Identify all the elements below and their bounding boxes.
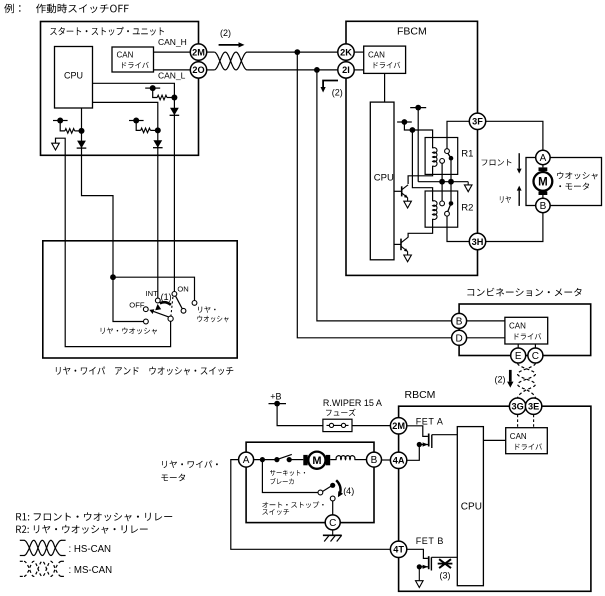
- diode D1: [77, 141, 86, 149]
- label circuit breaker line1: [270, 470, 305, 476]
- washer motor box: [526, 158, 602, 206]
- legend HS-CAN braid: [20, 539, 25, 541]
- input arrow symbol: [52, 143, 60, 150]
- wire S3 to resistor: [153, 88, 158, 97]
- relay R1 box: [425, 138, 458, 175]
- arrow front down: [518, 153, 520, 168]
- svg-text:3H: 3H: [472, 237, 484, 247]
- switch S3 bar: [145, 87, 160, 89]
- switch S3 contact dot: [150, 85, 156, 91]
- label rear washer right line1: [198, 306, 216, 312]
- pin wiper C: [325, 515, 340, 530]
- ground FET B: [418, 567, 420, 581]
- svg-text:ON: ON: [177, 285, 188, 294]
- CPU RBCM box: [457, 427, 483, 586]
- wire R2 contact to 3H: [447, 216, 469, 241]
- wire input arrow to switch common: [56, 138, 171, 346]
- rotation arrow (1): [160, 302, 171, 305]
- transistor Q2 base wire: [394, 243, 401, 245]
- svg-text:CPU: CPU: [374, 172, 394, 183]
- legend R1: [16, 512, 172, 521]
- svg-text:FET B: FET B: [416, 536, 444, 546]
- chassis ground C: [332, 530, 334, 535]
- FET A gate wire to CPU: [432, 434, 458, 436]
- pin 2K: [338, 44, 354, 60]
- pin 2M rbcm: [390, 418, 406, 434]
- pin C meter: [528, 348, 543, 363]
- fuse F1: [323, 419, 352, 431]
- svg-text:(1): (1): [161, 292, 172, 302]
- svg-text:2K: 2K: [340, 47, 352, 57]
- svg-text:OFF: OFF: [129, 300, 145, 309]
- wire 2O to braid: [207, 69, 215, 71]
- ground Q2: [407, 252, 409, 256]
- FET B drain wire: [407, 549, 428, 558]
- FBCM box: [346, 21, 478, 275]
- FET B source dot: [417, 564, 422, 569]
- wire T2 junction to R2 coil: [412, 130, 432, 201]
- power tap T1 bar: [410, 107, 426, 109]
- combination meter box: [459, 304, 591, 356]
- contact OFF circle: [143, 307, 148, 312]
- wire CAN_L junction down to B: [317, 70, 452, 321]
- wire T1 to relay common: [417, 108, 419, 182]
- label fuse jp: [326, 409, 356, 416]
- svg-text:(4): (4): [343, 486, 354, 496]
- wire B to CAN driver meter: [466, 320, 505, 322]
- power tap T2 bar: [397, 121, 412, 123]
- wire washer junction to rear washer R contact: [113, 277, 195, 300]
- junction A dot: [79, 128, 85, 134]
- relay R2 NC contact: [440, 201, 445, 206]
- wire D to CAN driver meter: [466, 337, 505, 339]
- svg-text:: MS-CAN: : MS-CAN: [69, 565, 113, 576]
- label circuit breaker line2: [270, 478, 293, 484]
- rear wiper and washer switch box: [43, 241, 237, 358]
- washer motor brush top: [539, 167, 548, 171]
- svg-text:B: B: [540, 201, 547, 212]
- legend R2: [16, 525, 148, 534]
- svg-text:RBCM: RBCM: [405, 389, 436, 401]
- wire S2 to resistor: [136, 121, 141, 131]
- wire breaker to motor: [289, 459, 303, 461]
- relay R1 fixed contact: [445, 149, 450, 154]
- svg-text:D: D: [455, 333, 462, 344]
- svg-text:CAN: CAN: [510, 432, 527, 441]
- auto-stop fixed contact: [318, 490, 323, 495]
- wire R1 NC to R2 contact: [441, 163, 443, 201]
- CAN driver FBCM box: [364, 46, 406, 73]
- svg-text:CAN: CAN: [117, 51, 134, 60]
- RBCM box: [399, 406, 591, 591]
- svg-text:(2): (2): [332, 87, 343, 97]
- svg-text:B: B: [456, 317, 463, 328]
- pin 2I: [338, 62, 354, 78]
- junction C dot: [171, 95, 177, 101]
- junction CAN_H dot: [294, 49, 300, 55]
- switch S2 contact dot: [133, 118, 139, 124]
- switch box title: [56, 367, 233, 376]
- wire R1 common to R2 common: [450, 160, 452, 201]
- washer motor brush bottom: [539, 191, 548, 195]
- rear wiper motor M2: [308, 452, 325, 469]
- start-stop unit box: [41, 22, 199, 156]
- CPU FBCM box: [370, 102, 394, 260]
- auto-stop moving dot: [330, 483, 335, 488]
- junction CAN_L dot: [314, 67, 320, 73]
- pin D meter: [452, 330, 467, 345]
- relay R2 common dot: [449, 201, 454, 206]
- relay R2 moving lever: [448, 203, 451, 212]
- wire 2M to braid: [207, 51, 215, 53]
- wire CAN_H junction down to D: [297, 52, 452, 338]
- combination meter title: [468, 288, 582, 297]
- transistor Q2: [400, 239, 402, 251]
- switch pivot circle: [168, 316, 173, 321]
- svg-text:CAN: CAN: [509, 322, 526, 331]
- FET B channel bar: [428, 556, 430, 569]
- switch S1 contact dot: [57, 118, 63, 124]
- FET B source wire: [419, 566, 428, 568]
- FET A drain wire: [407, 426, 428, 437]
- ground arrow relay line: [467, 182, 469, 185]
- junction B dot: [155, 127, 161, 133]
- diode D2: [153, 140, 162, 148]
- wire resistor to junction A: [75, 130, 82, 132]
- svg-text:A: A: [243, 455, 250, 466]
- label front jp: [482, 159, 512, 166]
- svg-text:2M: 2M: [392, 421, 405, 431]
- wire CPU bottom to node A junction: [81, 108, 83, 129]
- wire R1 coil to Q1 collector: [408, 166, 433, 184]
- pin washer B: [536, 198, 550, 212]
- svg-text:4A: 4A: [393, 456, 405, 466]
- junction T2 dot: [410, 127, 416, 133]
- HS-CAN twisted pair braid: [214, 52, 247, 70]
- wire CAN driver to C: [534, 344, 536, 348]
- svg-text:C: C: [532, 351, 539, 362]
- pin 4A: [390, 452, 406, 468]
- resistor R-s3: [157, 95, 167, 100]
- rear motor brush right: [326, 455, 330, 465]
- pin 3F: [469, 113, 485, 129]
- wire 2K to CAN driver: [354, 51, 364, 53]
- switch S2 bar: [129, 120, 144, 122]
- svg-text:+B: +B: [270, 392, 281, 402]
- wire junction B to INT contact: [157, 130, 159, 298]
- svg-text:FBCM: FBCM: [397, 25, 427, 37]
- svg-text:A: A: [540, 153, 547, 164]
- circuit breaker CB: [274, 457, 279, 462]
- svg-text:(2): (2): [495, 374, 506, 384]
- svg-text:INT: INT: [146, 289, 159, 298]
- wire breaker junction to auto-stop: [262, 460, 318, 493]
- relay R2 coil: [433, 201, 437, 220]
- svg-text:R1: R1: [461, 149, 473, 160]
- junction breaker dot: [260, 457, 265, 462]
- rotation arrow (4): [336, 480, 340, 493]
- FET A channel bar: [428, 434, 430, 447]
- svg-text:CPU: CPU: [64, 71, 83, 81]
- wire junction C to ON contact: [173, 98, 175, 292]
- rear wiper motor box: [246, 442, 374, 522]
- wire junction A to washer line: [82, 131, 114, 277]
- junction relay line dot1: [439, 179, 445, 185]
- relay R1 NC contact: [440, 159, 445, 164]
- svg-text:: HS-CAN: : HS-CAN: [69, 544, 112, 555]
- relay R2 box: [425, 191, 458, 227]
- CAN driver RBCM label jp: [516, 443, 543, 450]
- contact rear-washer-R circle: [192, 301, 197, 306]
- wire CAN driver to E: [517, 344, 519, 348]
- main lever with arrowhead: [154, 311, 169, 317]
- ground Q1: [407, 198, 409, 202]
- contact ON circle: [172, 292, 177, 297]
- svg-text:(2): (2): [220, 28, 231, 38]
- wire CAN driver to 2M: [154, 51, 191, 53]
- FET A gate bar: [431, 435, 433, 448]
- CAN driver FBCM label jp: [374, 62, 401, 69]
- label washer motor line2: [559, 183, 589, 190]
- label auto-stop line2: [262, 509, 289, 515]
- label rear wiper motor line2: [161, 474, 185, 482]
- svg-text:CAN: CAN: [368, 51, 385, 60]
- contact washer-wiper circle: [181, 308, 186, 313]
- wire resistor to junction B: [150, 129, 157, 131]
- wire 2I to CAN driver: [354, 69, 364, 71]
- pin wiper A: [239, 452, 254, 467]
- wire auto-stop to C: [332, 501, 334, 515]
- svg-text:(3): (3): [440, 570, 451, 580]
- FET B source arrow: [423, 565, 428, 569]
- relay R1 moving contact dot: [449, 156, 454, 161]
- CAN driver U-ss box: [112, 47, 154, 72]
- pin wiper B: [367, 452, 382, 467]
- svg-text:2O: 2O: [192, 65, 204, 75]
- svg-text:2M: 2M: [192, 47, 205, 57]
- FET B gate wire to CPU: [431, 556, 457, 558]
- relay R2 fixed contact: [445, 211, 450, 216]
- break symbol (3): [439, 559, 451, 568]
- svg-text:4T: 4T: [393, 545, 404, 555]
- dashed wire 3G to CAN driver: [517, 415, 519, 428]
- wire CPU to node B junction: [93, 102, 158, 128]
- arrow rear up: [518, 191, 520, 206]
- mechanical link dashed: [171, 297, 173, 316]
- svg-text:B: B: [371, 455, 378, 466]
- rear motor brush left: [303, 455, 307, 465]
- CPU U-ss box: [55, 47, 93, 109]
- svg-text:2I: 2I: [342, 65, 350, 75]
- wire motor brush to B: [542, 195, 544, 198]
- relay R1 coil: [433, 148, 437, 167]
- pin washer A: [536, 150, 550, 164]
- svg-text:3F: 3F: [472, 117, 483, 127]
- svg-text:CPU: CPU: [461, 502, 482, 513]
- start-stop unit title: [50, 27, 164, 36]
- pin 3G: [509, 398, 525, 414]
- dashed wire 3E to CAN driver: [533, 415, 535, 428]
- label rear wiper motor line1: [162, 461, 218, 469]
- svg-text:FET A: FET A: [416, 416, 444, 426]
- svg-text:CAN_H: CAN_H: [158, 37, 187, 47]
- pin 4T: [390, 541, 406, 557]
- wire coil to B: [355, 459, 367, 461]
- pin 3H: [469, 233, 485, 249]
- pin 3E: [525, 398, 541, 414]
- wire braid to 2I: [247, 69, 338, 71]
- wire fuse to 2M rbcm: [352, 425, 390, 427]
- pin 2O: [190, 62, 206, 78]
- wire R1 contact to 3F: [447, 121, 469, 148]
- svg-text:3G: 3G: [511, 402, 523, 412]
- svg-text:3E: 3E: [528, 402, 539, 412]
- signal arrow (2) top: [219, 44, 239, 46]
- signal arrow (2) down: [509, 370, 512, 382]
- transistor Q1 base wire: [394, 190, 402, 192]
- CAN driver RBCM box: [506, 428, 548, 454]
- label auto-stop line1: [262, 502, 323, 509]
- header text: example, switch OFF state: [4, 4, 129, 14]
- wire wiper B to 4A: [382, 459, 391, 461]
- power tap +B bar: [269, 403, 287, 405]
- wire CAN driver to 2O: [154, 69, 191, 71]
- auto-stop lower contact: [330, 496, 335, 501]
- wire +B to fuse: [277, 404, 323, 426]
- label rear jp: [500, 196, 511, 203]
- power tap +B dot: [274, 401, 280, 407]
- CAN driver meter label jp: [515, 333, 542, 340]
- power tap T2 dot: [402, 119, 408, 125]
- FET A source arrow: [423, 442, 428, 446]
- wire CPU to node C junction: [93, 83, 175, 95]
- wire braid to 2K: [247, 51, 338, 53]
- wire T2 to R1 coil: [404, 122, 432, 148]
- FET A source dot: [417, 442, 422, 447]
- label rear washer left: [101, 328, 157, 335]
- resistor R-s1: [65, 129, 75, 134]
- MS-CAN twisted pair braid: [518, 363, 536, 398]
- svg-text:M: M: [312, 455, 321, 467]
- power tap T1 dot: [415, 105, 421, 111]
- wire resistor to junction C: [167, 97, 175, 99]
- wire CAN driver to CPU FBCM: [384, 73, 386, 102]
- rear motor coil: [336, 456, 355, 460]
- lever ON to washer wiper: [176, 296, 183, 308]
- svg-text:C: C: [329, 518, 336, 529]
- label washer motor line1: [557, 172, 598, 180]
- junction relay line dot2: [448, 179, 454, 185]
- wire brush to coil: [330, 459, 336, 461]
- auto-stop lever: [323, 486, 331, 491]
- legend MS-CAN braid: [20, 560, 25, 562]
- CAN driver meter box: [505, 317, 548, 344]
- wire wiper A to 4T: [231, 460, 391, 550]
- wire R2 coil to Q2 collector: [408, 219, 433, 238]
- wire S1 to resistor: [60, 121, 65, 131]
- contact INT circle: [155, 298, 160, 303]
- switch S1 bar: [53, 120, 68, 122]
- wire washer junction to rear washer L contact: [113, 277, 144, 321]
- wire FET A source to 4A: [407, 445, 419, 461]
- svg-text:R2: R2: [461, 203, 473, 214]
- resistor R-s2: [141, 128, 151, 133]
- wire A to breaker: [254, 459, 277, 461]
- wire washer B to 3H: [486, 213, 543, 242]
- relay R1 moving contact lever: [448, 153, 451, 158]
- wire CPU to CAN driver RBCM: [483, 439, 505, 441]
- junction washer dot: [110, 274, 116, 280]
- pin 2M: [190, 44, 206, 60]
- CAN driver U-ss label jp: [122, 62, 149, 69]
- label rear washer right line2: [197, 316, 228, 323]
- svg-text:R.WIPER 15 A: R.WIPER 15 A: [323, 398, 382, 408]
- pin B meter: [452, 313, 467, 328]
- washer motor M1: [534, 172, 553, 191]
- FET B gate bar: [430, 557, 432, 570]
- svg-text:CAN_L: CAN_L: [158, 70, 186, 80]
- svg-text:E: E: [515, 351, 522, 362]
- pin E meter: [511, 348, 526, 363]
- transistor Q1: [401, 186, 403, 196]
- relay common line: [418, 181, 468, 183]
- wire 3F to washer A: [486, 121, 543, 150]
- contact rear-washer-L circle: [144, 319, 149, 324]
- svg-text:M: M: [538, 177, 548, 189]
- signal elbow arrow (2) at 2I: [323, 81, 338, 88]
- wire A to motor brush: [542, 165, 544, 168]
- diode D3: [170, 108, 179, 116]
- FET A source wire: [419, 444, 428, 446]
